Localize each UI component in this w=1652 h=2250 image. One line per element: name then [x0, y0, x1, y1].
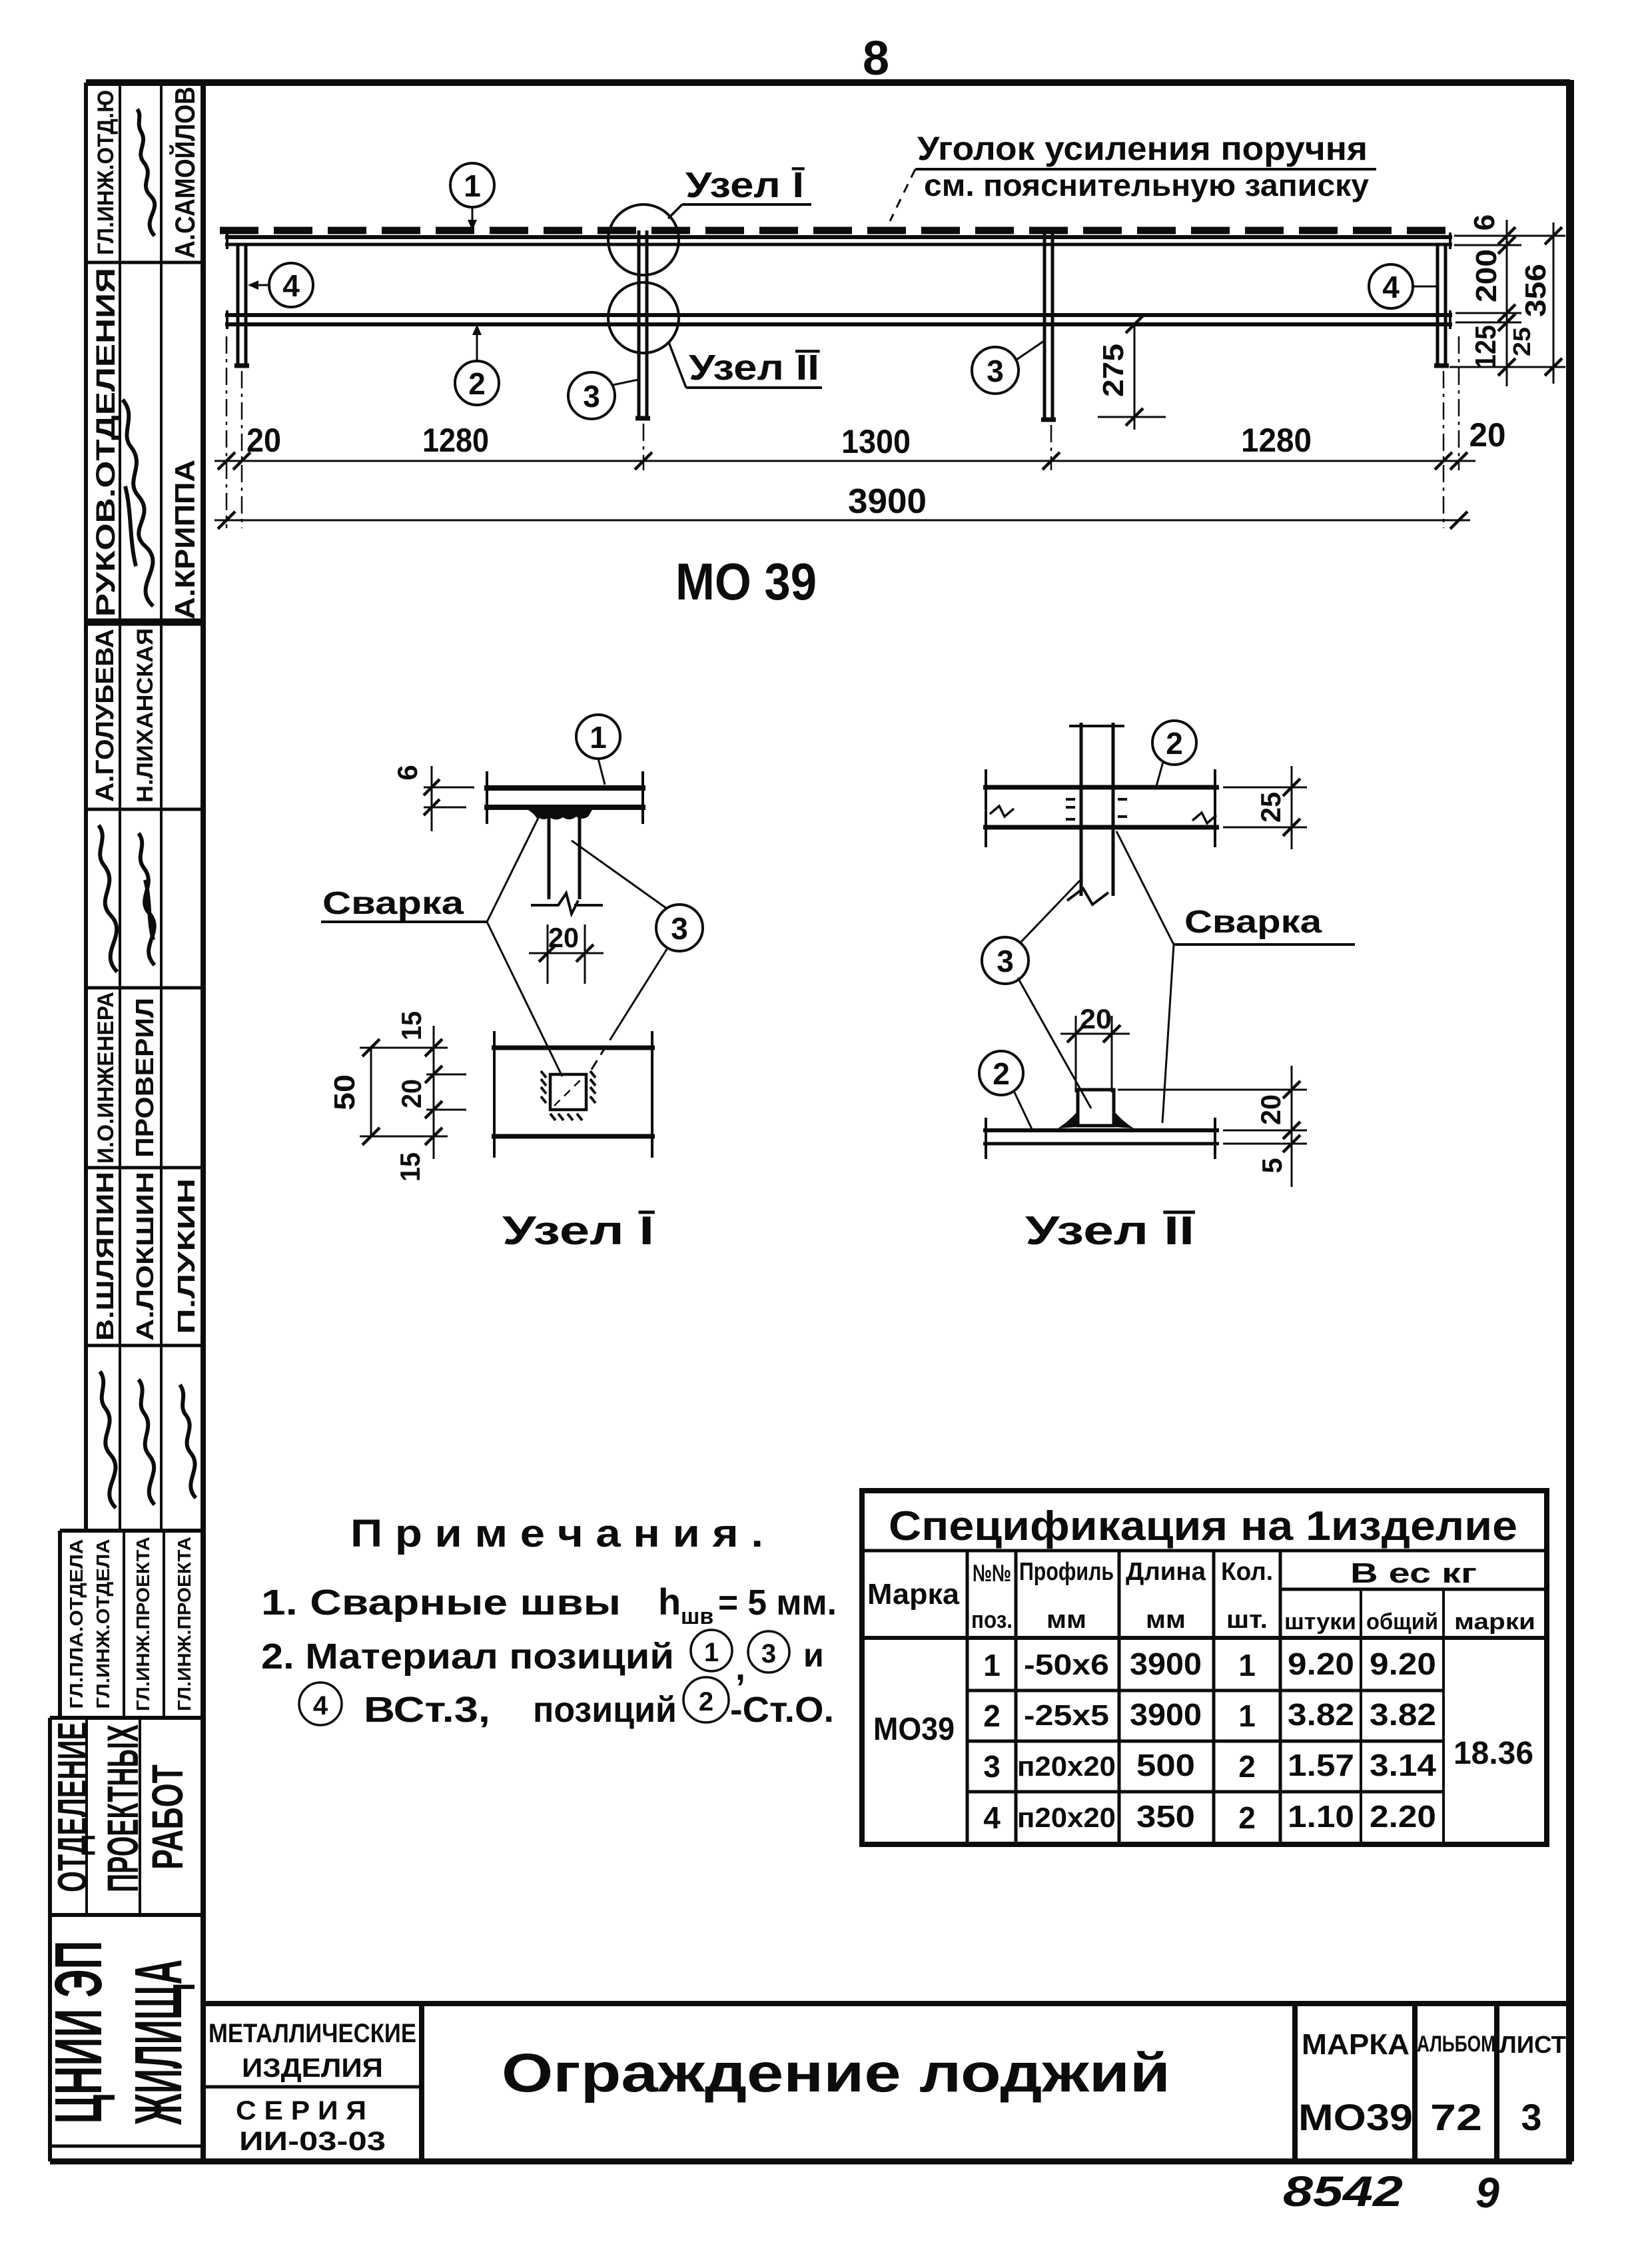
svg-text:П.ЛУКИН: П.ЛУКИН — [173, 1178, 200, 1334]
svg-text:4: 4 — [313, 1691, 328, 1720]
svg-text:РУКОВ.ОТДЕЛЕНИЯ: РУКОВ.ОТДЕЛЕНИЯ — [91, 268, 121, 617]
svg-text:Спецификация на 1изделие: Спецификация на 1изделие — [889, 1503, 1517, 1549]
svg-text:шв: шв — [681, 1604, 713, 1629]
svg-text:1: 1 — [590, 720, 607, 755]
node II circle mark — [608, 282, 679, 353]
svg-text:3: 3 — [1521, 2096, 1541, 2138]
svg-text:мм: мм — [1146, 1606, 1186, 1634]
svg-text:А.САМОЙЛОВ: А.САМОЙЛОВ — [169, 87, 201, 258]
bottom rail 25x5 (detail II) — [983, 1128, 1219, 1132]
svg-text:356: 356 — [1519, 264, 1552, 317]
svg-text:ПРОЕКТНЫХ: ПРОЕКТНЫХ — [98, 1724, 147, 1892]
svg-text:ГЛ.ИНЖ.ПРОЕКТА: ГЛ.ИНЖ.ПРОЕКТА — [174, 1537, 195, 1711]
svg-text:мм: мм — [1046, 1606, 1086, 1634]
callout circle 3 (detail I) — [656, 905, 703, 951]
callout circle 3 right — [972, 347, 1019, 394]
dim 6 (detail I) — [431, 766, 433, 831]
svg-text:20: 20 — [246, 422, 281, 459]
svg-text:Узел Ī: Узел Ī — [502, 1208, 655, 1253]
svg-text:МО 39: МО 39 — [675, 552, 817, 611]
svg-text:8542: 8542 — [1283, 2167, 1403, 2215]
strip signature 4 — [139, 833, 155, 965]
post 20x20 below rail (detail I) — [548, 809, 551, 899]
svg-text:3: 3 — [583, 379, 600, 414]
rail 50x6 cross piece (detail I) — [484, 785, 645, 791]
svg-text:Узел Ī: Узел Ī — [685, 165, 805, 205]
svg-text:ГЛ.ИНЖ.ПРОЕКТА: ГЛ.ИНЖ.ПРОЕКТА — [133, 1537, 153, 1711]
svg-text:ГЛ.ПЛА.ОТДЕЛА: ГЛ.ПЛА.ОТДЕЛА — [66, 1539, 87, 1709]
svg-text:20: 20 — [1255, 1094, 1286, 1125]
svg-text:4: 4 — [983, 1800, 1001, 1835]
svg-text:ЖИЛИЩА: ЖИЛИЩА — [121, 1960, 196, 2125]
top rail flat bar 50x6 (pos 1) — [225, 235, 1452, 239]
svg-text:Ограждение лоджий: Ограждение лоджий — [502, 2043, 1170, 2103]
svg-text:20: 20 — [1080, 1003, 1112, 1034]
svg-text:ЛИСТ: ЛИСТ — [1499, 2031, 1566, 2058]
svg-text:3: 3 — [671, 911, 688, 946]
svg-text:275: 275 — [1097, 344, 1130, 397]
svg-text:8: 8 — [863, 32, 889, 85]
svg-text:ЦНИИ ЭП: ЦНИИ ЭП — [41, 1941, 116, 2124]
label УЗЕЛ II — [669, 342, 686, 388]
weld marks at rail/post (detail I) — [528, 810, 592, 820]
svg-text:№№: №№ — [973, 1559, 1011, 1587]
svg-text:и: и — [803, 1637, 824, 1674]
svg-text:Марка: Марка — [867, 1578, 960, 1611]
svg-text:1280: 1280 — [1241, 422, 1312, 459]
svg-text:ИЗДЕЛИЯ: ИЗДЕЛИЯ — [242, 2054, 383, 2083]
post cross-section square (detail I) — [550, 1074, 586, 1110]
svg-text:15: 15 — [394, 1152, 426, 1182]
svg-text:350: 350 — [1136, 1799, 1195, 1834]
svg-text:15: 15 — [396, 1011, 427, 1040]
svg-text:Уголок усиления поручня: Уголок усиления поручня — [917, 130, 1368, 167]
svg-text:1. Сварные швы: 1. Сварные швы — [261, 1583, 621, 1623]
left outer post (pos 4) — [238, 244, 246, 366]
svg-text:1280: 1280 — [422, 422, 489, 459]
svg-text:2: 2 — [983, 1698, 1001, 1733]
svg-text:МО39: МО39 — [1298, 2096, 1413, 2138]
svg-text:ОТДЕЛЕНИЕ: ОТДЕЛЕНИЕ — [50, 1722, 96, 1892]
svg-text:h: h — [658, 1581, 681, 1623]
svg-text:штуки: штуки — [1284, 1609, 1356, 1635]
node I circle mark — [608, 204, 679, 275]
svg-text:3: 3 — [987, 354, 1004, 388]
svg-text:2: 2 — [1238, 1749, 1256, 1784]
svg-text:И.О.ИНЖЕНЕРА: И.О.ИНЖЕНЕРА — [93, 992, 119, 1164]
svg-text:9: 9 — [1475, 2169, 1499, 2217]
svg-text:ВСт.3,: ВСт.3, — [364, 1690, 490, 1730]
svg-text:ИИ-03-03: ИИ-03-03 — [239, 2127, 386, 2156]
strip signature 6 — [139, 1379, 155, 1505]
svg-text:2. Материал позиций: 2. Материал позиций — [261, 1637, 674, 1677]
svg-text:ГЛ.ИНЖ.ОТД.Ю: ГЛ.ИНЖ.ОТД.Ю — [93, 90, 119, 255]
svg-text:марки: марки — [1454, 1609, 1535, 1635]
svg-text:20: 20 — [548, 922, 579, 953]
dim 20/5 right (detail II) — [1118, 1089, 1307, 1091]
svg-text:3.14: 3.14 — [1370, 1748, 1436, 1782]
svg-text:Узел ĪĪ: Узел ĪĪ — [1025, 1208, 1196, 1253]
table frame — [862, 1491, 1547, 1844]
svg-text:3: 3 — [997, 944, 1014, 978]
svg-text:ГЛ.ИНЖ.ОТДЕЛА: ГЛ.ИНЖ.ОТДЕЛА — [93, 1539, 113, 1709]
svg-text:позиций: позиций — [533, 1690, 677, 1730]
svg-text:поз.: поз. — [971, 1606, 1013, 1633]
svg-text:шт.: шт. — [1226, 1606, 1268, 1634]
callout circle 3 (detail II) — [982, 937, 1029, 984]
svg-text:Кол.: Кол. — [1221, 1558, 1273, 1586]
svg-text:МАРКА: МАРКА — [1302, 2028, 1410, 2061]
svg-text:Сварка: Сварка — [322, 886, 464, 921]
svg-text:2: 2 — [993, 1056, 1010, 1091]
svg-text:3900: 3900 — [1130, 1697, 1202, 1732]
note line 3 — [299, 1683, 342, 1725]
svg-text:,: , — [735, 1648, 745, 1688]
overall height dim 356 — [1553, 222, 1555, 384]
overall dimension line 3900 — [214, 520, 1470, 522]
dim 20 below post (detail I) — [548, 925, 585, 984]
svg-text:1: 1 — [464, 169, 481, 203]
svg-text:1: 1 — [1238, 1698, 1256, 1733]
dim 275 at post 3 — [1134, 324, 1136, 430]
svg-text:50: 50 — [328, 1074, 361, 1110]
svg-text:АЛЬБОМ: АЛЬБОМ — [1417, 2032, 1495, 2057]
handrail angle, dashed (pos 1) — [220, 227, 1452, 234]
svg-text:4: 4 — [282, 268, 300, 303]
svg-text:П р и м е ч а н и я .: П р и м е ч а н и я . — [350, 1512, 763, 1555]
svg-text:5: 5 — [1256, 1158, 1288, 1173]
callout circle 4 right — [1369, 264, 1413, 308]
svg-text:С Е Р И Я: С Е Р И Я — [236, 2096, 366, 2125]
svg-text:1300: 1300 — [841, 423, 911, 460]
strip signature 3 — [99, 825, 117, 972]
right vertical dimension chain 6/200/25/125 — [1454, 235, 1565, 237]
dim 25 (detail II) — [1223, 787, 1307, 827]
svg-text:А.ГОЛУБЕВА: А.ГОЛУБЕВА — [91, 629, 119, 802]
strip signature 2 — [123, 400, 153, 606]
svg-text:500: 500 — [1136, 1748, 1195, 1782]
svg-text:см. пояснительную записку: см. пояснительную записку — [924, 168, 1369, 202]
svg-text:4: 4 — [1382, 270, 1400, 304]
svg-text:3900: 3900 — [1130, 1647, 1202, 1681]
svg-text:Длина: Длина — [1126, 1558, 1206, 1586]
dim 15/20/15 (detail I plan) — [433, 1026, 435, 1159]
svg-text:6: 6 — [392, 765, 423, 780]
post stub square (detail II) — [1078, 1090, 1114, 1126]
svg-text:6: 6 — [1468, 214, 1501, 230]
svg-text:общий: общий — [1366, 1609, 1438, 1635]
svg-text:2.20: 2.20 — [1370, 1799, 1436, 1834]
inner post 3 (pos 3) — [1044, 230, 1052, 420]
svg-text:25: 25 — [1255, 792, 1286, 823]
svg-text:3.82: 3.82 — [1288, 1697, 1354, 1732]
svg-text:РАБОТ: РАБОТ — [143, 1764, 192, 1870]
svg-text:20: 20 — [396, 1079, 427, 1108]
svg-text:25: 25 — [1508, 327, 1535, 356]
weld hatch around square (detail I) — [541, 1071, 596, 1120]
svg-text:А.КРИППА: А.КРИППА — [169, 460, 201, 619]
post 20x20 (detail II) — [1080, 723, 1083, 896]
svg-text:3900: 3900 — [848, 482, 927, 521]
svg-text:А.ЛОКШИН: А.ЛОКШИН — [131, 1172, 159, 1341]
strip signature 5 — [100, 1371, 116, 1508]
svg-text:1.57: 1.57 — [1288, 1748, 1354, 1782]
extension lines to bottom dims — [226, 336, 228, 528]
middle rail cross piece (detail II) — [983, 785, 1219, 790]
callout circle 1 — [450, 163, 494, 207]
svg-text:3: 3 — [761, 1639, 776, 1669]
title stamp side strip — [50, 83, 203, 2161]
callout circle 2 bottom (detail II) — [979, 1051, 1023, 1095]
dimension line 20/1280/1300/1280/20 — [214, 460, 1475, 462]
callout circle 4 left — [269, 263, 313, 307]
svg-text:В ес кг: В ес кг — [1350, 1557, 1477, 1589]
dim 50 (detail I plan) — [370, 1048, 372, 1136]
svg-text:200: 200 — [1470, 249, 1503, 302]
svg-text:3: 3 — [983, 1749, 1001, 1784]
svg-text:2: 2 — [699, 1687, 713, 1716]
svg-text:20: 20 — [1469, 416, 1506, 454]
svg-text:1: 1 — [704, 1638, 719, 1667]
svg-text:72: 72 — [1430, 2096, 1482, 2138]
svg-text:В.ШЛЯПИН: В.ШЛЯПИН — [91, 1172, 119, 1341]
strip signature 7 — [180, 1385, 196, 1498]
svg-text:ПРОВЕРИЛ: ПРОВЕРИЛ — [131, 998, 159, 1158]
svg-text:2: 2 — [1238, 1800, 1256, 1835]
callout circle 2 — [455, 361, 499, 405]
weld fillets (detail II) — [1058, 1111, 1078, 1128]
svg-text:Узел ĪĪ: Узел ĪĪ — [689, 348, 820, 388]
middle rail flat bar 25x5 (pos 2) — [225, 313, 1452, 317]
svg-text:Н.ЛИХАНСКАЯ: Н.ЛИХАНСКАЯ — [133, 628, 158, 803]
svg-text:2: 2 — [1166, 726, 1183, 761]
svg-text:9.20: 9.20 — [1370, 1647, 1436, 1681]
callout circle 1 (detail I) — [576, 715, 620, 759]
svg-text:125: 125 — [1469, 325, 1502, 369]
plan view plate (detail I) — [492, 1046, 655, 1050]
svg-text:МО39: МО39 — [873, 1712, 955, 1747]
svg-text:МЕТАЛЛИЧЕСКИЕ: МЕТАЛЛИЧЕСКИЕ — [208, 2019, 416, 2048]
right outer post (pos 4) — [1438, 244, 1445, 366]
inner post 2 (pos 3) — [639, 230, 647, 418]
strip signature 1 — [137, 109, 155, 236]
svg-text:1.10: 1.10 — [1288, 1799, 1354, 1834]
svg-text:п20x20: п20x20 — [1017, 1802, 1116, 1833]
svg-text:1: 1 — [983, 1648, 1001, 1683]
svg-text:-Ст.О.: -Ст.О. — [730, 1690, 834, 1730]
svg-text:1: 1 — [1238, 1648, 1256, 1683]
svg-text:Профиль: Профиль — [1019, 1558, 1114, 1586]
svg-text:3.82: 3.82 — [1370, 1697, 1436, 1732]
svg-text:п20x20: п20x20 — [1017, 1750, 1116, 1782]
svg-text:-50x6: -50x6 — [1024, 1649, 1109, 1681]
svg-text:18.36: 18.36 — [1453, 1736, 1533, 1771]
callout circle 2 top (detail II) — [1152, 721, 1196, 765]
svg-text:-25x5: -25x5 — [1024, 1699, 1109, 1732]
label УЗЕЛ I — [668, 204, 682, 218]
svg-text:9.20: 9.20 — [1288, 1647, 1354, 1681]
dim 20 (detail II square) — [1076, 1016, 1112, 1092]
callout circle 3 left — [568, 372, 615, 419]
svg-text:= 5 мм.: = 5 мм. — [718, 1583, 837, 1623]
svg-text:2: 2 — [468, 366, 486, 401]
svg-text:Сварка: Сварка — [1184, 905, 1322, 940]
